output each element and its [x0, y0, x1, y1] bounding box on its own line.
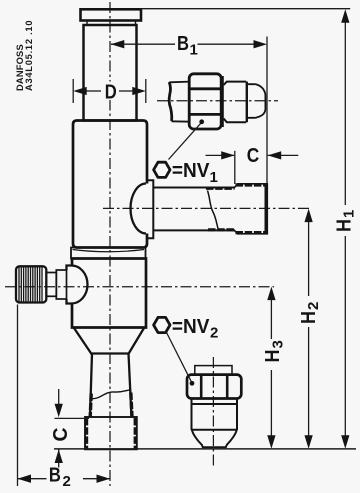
- port end extension line: [266, 37, 268, 184]
- dimension H2 arrowheads: [304, 209, 312, 449]
- dimension B2 line: [18, 478, 47, 480]
- NV2 hexagon symbol: [154, 317, 170, 332]
- dimension H3 arrowheads: [267, 287, 275, 449]
- svg-text:=NV: =NV: [172, 160, 210, 182]
- fitting detail axis centerline: [157, 100, 278, 102]
- dimension C (port) line: [206, 154, 235, 156]
- svg-text:2: 2: [210, 325, 218, 342]
- dimension D extension ticks: [72, 79, 74, 103]
- NV1 hexagon symbol: [154, 162, 170, 177]
- pipe stub broken end: [169, 82, 172, 121]
- fitting body: [224, 82, 247, 123]
- knob flange: [56, 270, 66, 299]
- joint ring curve: [73, 250, 145, 252]
- port cup end wall: [265, 185, 268, 234]
- dimension H2 label: [298, 302, 322, 324]
- tube break wavy line: [91, 390, 132, 399]
- flare nut facet lines: [191, 89, 221, 115]
- flare fitting pipe stub: [169, 82, 190, 122]
- dimension H3 label: [262, 340, 286, 362]
- port solder cup hatched walls: [236, 185, 267, 233]
- bottom fitting pipe stub: [195, 366, 232, 375]
- svg-text:H: H: [333, 219, 355, 232]
- flare nut NV2: [187, 375, 241, 399]
- cap lip: [87, 21, 136, 26]
- outlet port tube: [153, 188, 235, 231]
- port solder cup: [235, 184, 268, 234]
- tube socket hatched walls: [90, 393, 132, 418]
- port boss arc on body: [131, 184, 147, 234]
- main vertical centerline: [109, 2, 111, 486]
- knob axis centerline / H3 reference: [5, 286, 274, 288]
- lower body: [72, 259, 146, 328]
- bottom fitting axis centerline: [212, 357, 214, 467]
- svg-text:2: 2: [63, 473, 71, 490]
- dimension C (bottom cup) label: [49, 427, 72, 441]
- port collar: [147, 180, 154, 238]
- svg-text:D: D: [105, 81, 117, 103]
- knob stem: [46, 273, 56, 297]
- nut-body boundary: [221, 76, 224, 127]
- knob boss on body: [67, 266, 88, 304]
- fitting nose: [248, 84, 266, 118]
- svg-text:B: B: [49, 464, 61, 486]
- svg-text:1: 1: [341, 210, 358, 218]
- dimension C (port) arrowheads: [221, 151, 281, 159]
- upper cylinder (spring housing): [84, 25, 137, 121]
- bottom solder cup: [85, 417, 137, 449]
- dimension H1 line: [344, 21, 346, 205]
- top reference line: [141, 8, 350, 10]
- cup start extension line: [234, 151, 236, 184]
- port socket hatched walls: [206, 188, 235, 230]
- dimension B1 line: [111, 43, 175, 45]
- cup top extension line: [55, 417, 90, 419]
- dimension H1 label: [333, 210, 357, 232]
- B2 knob face extension line: [17, 305, 19, 487]
- port axis centerline / H2 reference: [103, 207, 312, 209]
- joint ring: [71, 248, 146, 259]
- dimension D line: [85, 90, 101, 92]
- NV1 leader line: [169, 123, 202, 160]
- svg-text:A34L05.12 .10: A34L05.12 .10: [24, 20, 34, 91]
- svg-text:C: C: [247, 145, 259, 167]
- bottom solder cup hatched walls: [87, 418, 136, 449]
- dimension B1 arrowheads: [111, 40, 267, 48]
- bottom fitting nose: [192, 430, 237, 447]
- dimension H2 line: [308, 221, 310, 297]
- svg-text:1: 1: [190, 42, 198, 59]
- NV2 nut facet lines: [201, 376, 227, 398]
- bottom fitting body: [192, 399, 238, 431]
- adjustment knob knurled cap: [16, 266, 46, 302]
- NV1 leader dot: [199, 119, 204, 124]
- dimension H3 line: [270, 299, 272, 340]
- NV2 leader dot: [190, 381, 195, 386]
- bottom inlet tube: [90, 354, 132, 418]
- svg-text:H: H: [262, 350, 284, 363]
- dimension H1 arrowheads: [341, 9, 349, 449]
- dimension D label: [102, 82, 119, 101]
- dimension D arrowheads: [73, 87, 146, 95]
- svg-text:=NV: =NV: [172, 316, 210, 338]
- dimension B2 arrowheads: [18, 475, 111, 483]
- svg-text:3: 3: [269, 340, 286, 348]
- main valve body: [73, 121, 147, 248]
- knob knurling lines: [19, 267, 42, 302]
- fitting body shoulder: [246, 82, 248, 123]
- dimension C (bottom cup) arrowheads: [55, 404, 63, 463]
- NV2 leader line: [166, 332, 192, 383]
- svg-text:2: 2: [305, 302, 322, 310]
- dimension C (bottom cup) line: [58, 389, 60, 405]
- svg-text:B: B: [177, 33, 189, 55]
- valve top cap: [81, 9, 142, 20]
- svg-text:C: C: [49, 427, 72, 441]
- port diagonal break line: [208, 191, 219, 230]
- bottom reference line: [54, 448, 356, 450]
- svg-text:1: 1: [210, 169, 218, 186]
- bottom taper cone: [74, 328, 144, 354]
- flare nut NV1: [189, 74, 221, 129]
- svg-text:H: H: [298, 311, 320, 324]
